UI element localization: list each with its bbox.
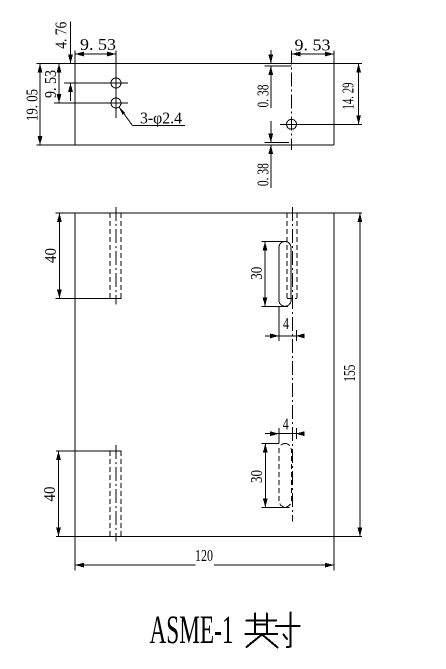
svg-text:0. 38: 0. 38 (254, 85, 273, 108)
dimension 30 upper (247, 242, 288, 307)
svg-text:40: 40 (41, 248, 60, 263)
slot lower-right hidden (279, 444, 291, 508)
dimension 14.29 (339, 64, 362, 125)
hole row line 1 (64, 82, 128, 84)
svg-text:30: 30 (247, 470, 266, 483)
dimension 120 (75, 546, 334, 568)
centerline lower-left (115, 445, 117, 542)
svg-text:14. 29: 14. 29 (339, 83, 358, 110)
hole row line 2 (54, 102, 128, 104)
dimension 4.76 (51, 22, 73, 101)
hidden lines lower-left (110, 451, 121, 537)
dimension 4 lower (265, 415, 304, 444)
svg-text:4: 4 (283, 415, 289, 434)
slot upper-right (279, 242, 291, 307)
hole top-right (287, 119, 297, 129)
hole top-left 1 (111, 78, 121, 88)
svg-text:120: 120 (195, 546, 213, 565)
svg-text:0. 38: 0. 38 (254, 163, 273, 186)
hidden lines upper-left (110, 213, 121, 299)
title hanzi cun (276, 613, 300, 648)
title hanzi ying (246, 614, 278, 648)
dimension 0.38 bottom (254, 121, 274, 188)
dimension 0.38 top (254, 50, 274, 108)
hole top-left 2 (111, 98, 121, 108)
dimension 9.53 top-left (75, 35, 116, 56)
svg-text:ASME-1: ASME-1 (150, 607, 234, 652)
offset edge line bottom (265, 142, 290, 144)
hole column centerline (115, 51, 117, 119)
dimension 30 lower (247, 444, 289, 508)
hidden lines upper-right (287, 213, 297, 299)
front view outline (56, 213, 362, 570)
centerline right column (291, 207, 293, 522)
hidden flange end line upper-left (56, 298, 122, 300)
offset edge line top (265, 65, 292, 67)
hole row right (280, 123, 362, 125)
hidden flange end line lower-left (56, 450, 122, 452)
dimension 40 lower (40, 451, 61, 537)
svg-text:30: 30 (247, 267, 266, 280)
svg-text:9. 53: 9. 53 (295, 36, 331, 55)
svg-text:9. 53: 9. 53 (80, 35, 116, 54)
svg-text:4: 4 (283, 314, 289, 333)
dimension 9.53 left (41, 64, 61, 104)
dimension 19.05 (23, 64, 43, 146)
svg-text:40: 40 (40, 487, 59, 502)
svg-text:9. 53: 9. 53 (41, 70, 60, 98)
centerline upper-left (115, 207, 117, 305)
dimension 155 (340, 213, 362, 537)
leader 3-phi2.4 (119, 107, 186, 128)
svg-text:155: 155 (340, 365, 359, 382)
top view outline (37, 51, 363, 146)
right centerline top view (291, 51, 293, 151)
dimension 40 upper (41, 213, 62, 299)
svg-text:19. 05: 19. 05 (23, 89, 42, 121)
svg-text:4. 76: 4. 76 (51, 22, 70, 49)
svg-text:3-φ2.4: 3-φ2.4 (140, 109, 182, 128)
dimension 4 upper (265, 306, 304, 341)
dimension 9.53 top-right (292, 36, 335, 57)
